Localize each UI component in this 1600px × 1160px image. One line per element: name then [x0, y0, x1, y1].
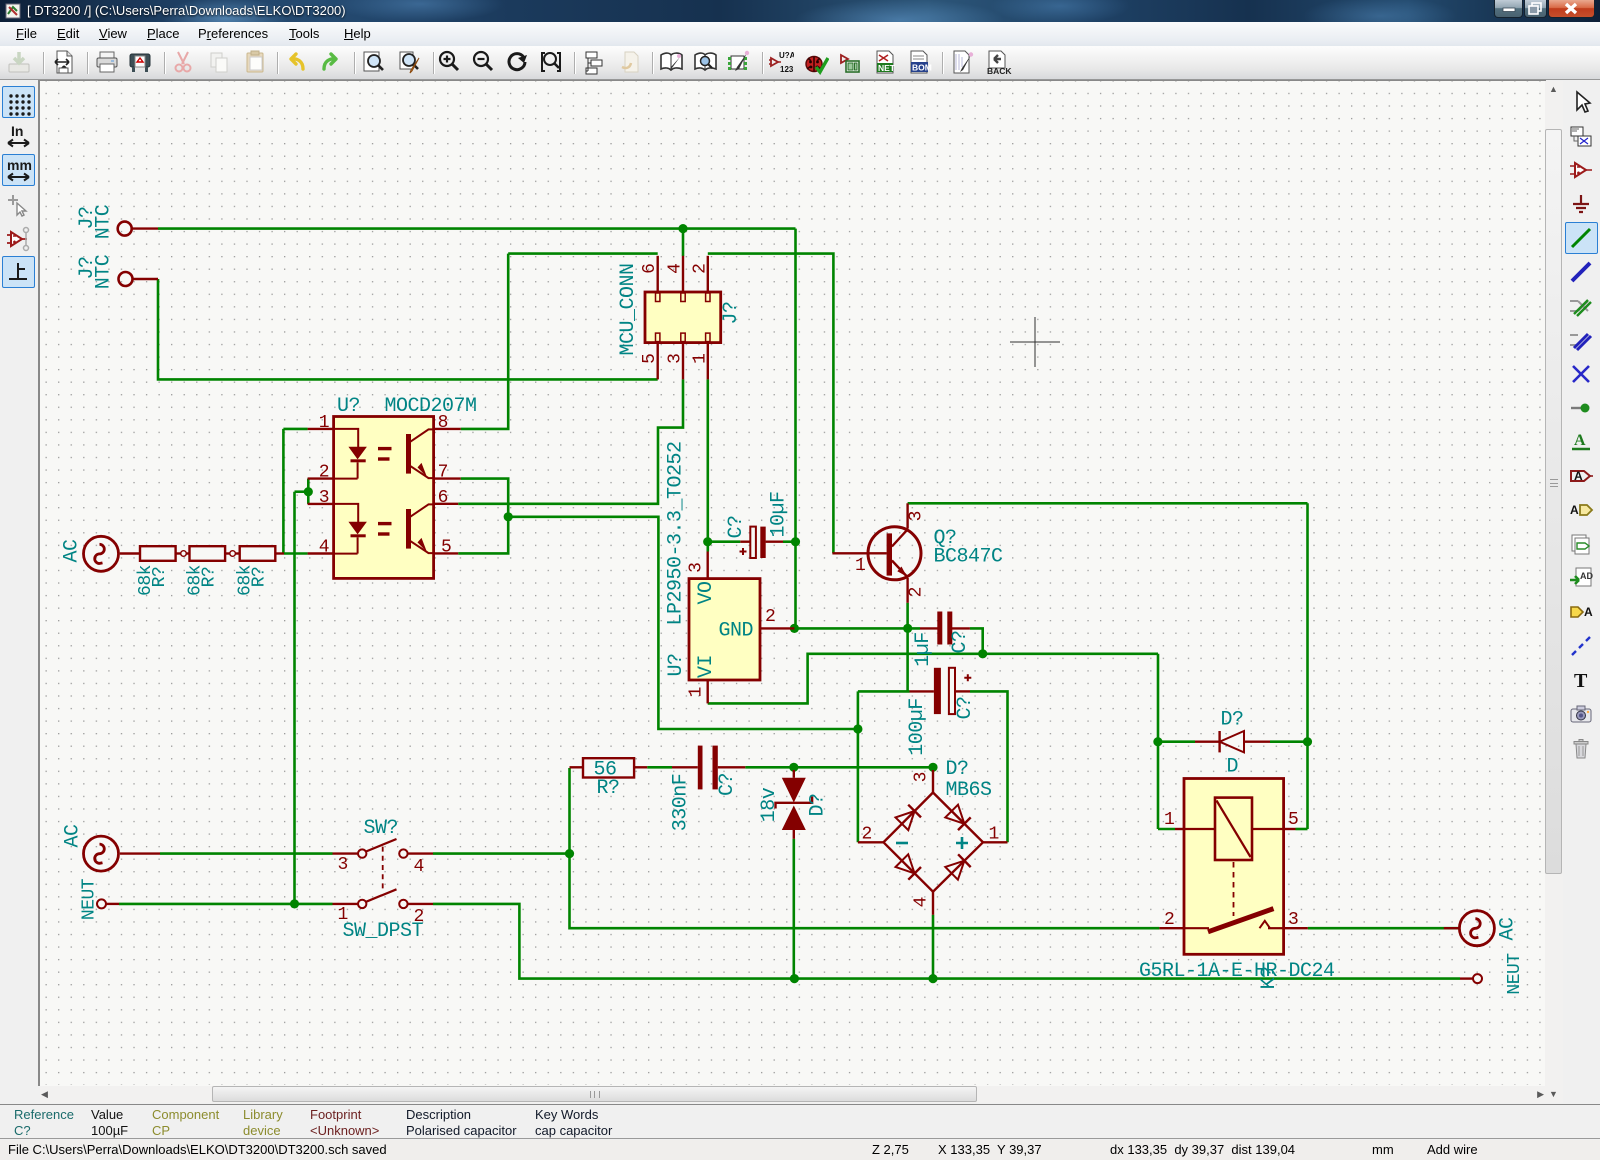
pin stub C10u left [740, 541, 750, 543]
svg-text:SW_DPST: SW_DPST [343, 920, 424, 943]
wire R56 to C330n [647, 766, 672, 769]
connector J? NTC 1 [118, 222, 132, 236]
svg-text:MCU_CONN: MCU_CONN [617, 263, 640, 355]
capacitor C? 330nF [698, 746, 718, 790]
relay K? G5RL body [1184, 779, 1284, 955]
pin stub MCU pin5 [657, 343, 659, 379]
svg-text:D?: D? [946, 758, 969, 781]
svg-text:SW?: SW? [364, 817, 399, 840]
pin stub LP pin2 [760, 627, 794, 629]
pin stub MCU pin2 [707, 256, 709, 292]
svg-text:NEUT: NEUT [80, 878, 100, 920]
wire NEUT to switch pin1 [119, 903, 333, 906]
relay switch contact [1184, 909, 1284, 932]
label SW_DPST [343, 920, 424, 943]
pin stub opto pin6 [434, 503, 459, 505]
wire MCU pin2 to Q1 base [708, 254, 834, 554]
connector NEUT left [97, 899, 106, 908]
switch dashed link [382, 847, 384, 891]
svg-text:T: T [1574, 670, 1588, 692]
info panel [0, 1104, 1600, 1139]
wire 100uF right to bridge pin1 [970, 691, 1008, 842]
svg-text:2: 2 [907, 587, 927, 598]
svg-text:3: 3 [687, 562, 707, 573]
pin stub R3 out [275, 552, 284, 554]
capacitor C? 100uF [934, 668, 971, 714]
node junction zener top [789, 763, 798, 772]
svg-text:NTC: NTC [93, 254, 116, 289]
svg-text:AD: AD [1580, 571, 1593, 581]
node open pin circle R2-R3 [230, 551, 236, 557]
svg-text:K?: K? [1258, 966, 1281, 989]
label J? NTC2 [76, 254, 116, 289]
power source AC right [1459, 911, 1494, 946]
label AC left [62, 824, 85, 848]
menu bar [0, 22, 1600, 46]
label GND [719, 620, 754, 643]
svg-text:4: 4 [665, 263, 685, 274]
power source AC top-left [84, 536, 119, 571]
wire C10u right [783, 540, 796, 543]
pin stub C10u right [766, 541, 783, 543]
node junction NEUT branch [290, 899, 299, 908]
pin stub Q1 emitter [906, 578, 908, 603]
wire diode right link [1270, 740, 1308, 743]
transistor photo channel 2 of U? [406, 504, 434, 553]
pin stub switch pin1 [333, 903, 359, 905]
pin numbers MCU bottom [640, 353, 711, 364]
svg-text:VI: VI [695, 655, 718, 678]
node junction C10u left [703, 537, 712, 546]
diode LED channel 1 of U? [334, 429, 392, 479]
wire net to relay pin1 [1158, 654, 1175, 829]
svg-text:7: 7 [438, 463, 449, 483]
svg-text:BC847C: BC847C [934, 546, 1004, 569]
label NEUT right [1505, 953, 1525, 995]
pin stub switch pin2 [407, 903, 433, 905]
cursor crosshair [1010, 317, 1060, 367]
svg-text:AC: AC [62, 824, 85, 848]
svg-text:1: 1 [989, 825, 1000, 845]
svg-text:10µF: 10µF [768, 491, 791, 537]
pin stub diode cathode [1195, 741, 1220, 743]
svg-text:C?: C? [954, 696, 977, 719]
left toolbar [0, 81, 38, 1104]
connector J? MCU_CONN body [645, 292, 721, 343]
pin numbers MCU top [640, 263, 711, 274]
resistor R? 68k #3 [240, 546, 276, 561]
label NEUT left [80, 878, 100, 920]
wire C330n to bridge pin3 [745, 766, 933, 769]
node junction at 100uF branch [853, 724, 862, 733]
svg-text:2: 2 [862, 825, 873, 845]
label D? D [1221, 709, 1244, 779]
svg-text:5: 5 [441, 537, 452, 557]
node junction zener-NEUT [790, 974, 799, 983]
pin stub zener bottom [793, 830, 795, 839]
svg-text:U?: U? [337, 395, 360, 418]
pin stub C100u right [955, 690, 970, 692]
pin numbers U? right [438, 413, 452, 557]
pin stub C330n right [718, 766, 746, 768]
wire opto pin1 to pin4 row [283, 429, 307, 554]
label VI [695, 655, 718, 678]
label VO [695, 581, 718, 604]
resistor R? 68k #1 [140, 546, 176, 561]
svg-text:1: 1 [319, 413, 330, 433]
pin numbers LP [687, 562, 776, 697]
svg-text:2: 2 [414, 907, 425, 927]
label G5RL-1A-E-HR-DC24 [1139, 960, 1335, 983]
pin stub bridge pin4 [932, 892, 934, 915]
wire opto pin3 to NEUT [293, 492, 296, 904]
svg-text:R?: R? [150, 567, 170, 588]
pin stub R56 left [570, 766, 584, 768]
wire C10u left [708, 540, 741, 543]
pin stub opto pin7 [434, 477, 461, 479]
window title bar [0, 0, 1600, 22]
svg-text:3: 3 [907, 511, 927, 522]
node junction opto pins 5-7 [504, 512, 513, 521]
svg-text:J?: J? [720, 301, 743, 324]
pin stub MCU pin3 [682, 343, 684, 379]
svg-text:C?: C? [949, 630, 972, 653]
pin stub opto pin8 [434, 428, 461, 430]
pin stub relay pin2 [1159, 927, 1184, 929]
wire LP VI net [708, 654, 1158, 704]
label J? NTC1 [76, 204, 116, 239]
pin stub C100u left [910, 690, 934, 692]
svg-text:1: 1 [687, 687, 707, 698]
vertical scrollbar [1545, 81, 1563, 1103]
wire LP GND row [794, 627, 920, 630]
svg-text:2: 2 [690, 263, 710, 274]
relay coil pins inside [1184, 828, 1284, 830]
pin stub NTC2 [133, 278, 158, 280]
svg-text:MB6S: MB6S [946, 779, 993, 802]
wire bridge pin4 down [932, 915, 935, 979]
svg-text:6: 6 [438, 488, 449, 508]
pin stub R2-R3 [225, 552, 240, 554]
svg-text:6: 6 [640, 263, 660, 274]
svg-text:G5RL-1A-E-HR-DC24: G5RL-1A-E-HR-DC24 [1139, 960, 1335, 983]
node junction switch-R56 [565, 849, 574, 858]
svg-text:R?: R? [597, 777, 620, 800]
svg-text:U?: U? [665, 653, 688, 676]
pin stub LP pin3 [707, 552, 709, 579]
node junction LP GND [790, 624, 799, 633]
top toolbar [0, 46, 1600, 80]
label C? 100uF [906, 696, 977, 755]
pin stub C1u right [952, 627, 970, 629]
wire switch pin4 out [433, 852, 570, 855]
svg-text:3: 3 [665, 353, 685, 364]
pin stub Q1 collector [906, 503, 908, 528]
wire opto pin5 up [458, 517, 508, 554]
svg-text:1: 1 [1164, 810, 1175, 830]
wire 100uF left [858, 690, 910, 693]
label AC right [1497, 917, 1520, 941]
wire opto pin8 up [461, 254, 509, 429]
svg-text:D: D [1227, 756, 1239, 779]
capacitor C? 1uF [937, 612, 952, 645]
svg-text:NEUT: NEUT [1505, 953, 1525, 995]
svg-text:GND: GND [719, 620, 754, 643]
label 68k R? #2 [186, 565, 220, 596]
wire MCU pin1 to LP VO [706, 379, 709, 551]
pin stub NEUT right [1460, 977, 1473, 979]
pin stub NEUT left [107, 903, 120, 905]
svg-text:3: 3 [338, 855, 349, 875]
svg-text:D?: D? [1221, 709, 1244, 732]
svg-text:R?: R? [200, 567, 220, 588]
node junction diode right [1303, 737, 1312, 746]
diode D? 18v zener [776, 778, 813, 830]
label C? 10uF [725, 491, 791, 538]
wire diode left link [1158, 740, 1195, 743]
svg-text:AC: AC [1497, 917, 1520, 941]
pin stub C330n left [672, 766, 698, 768]
svg-text:mm: mm [7, 157, 32, 173]
label 18v D? [758, 787, 830, 822]
diode bridge D? MB6S [884, 793, 984, 892]
pin stub diode anode [1244, 741, 1270, 743]
svg-text:330nF: 330nF [670, 774, 693, 832]
wire opto pin7 down [461, 479, 509, 517]
pin stub C1u left [920, 627, 938, 629]
svg-text:5: 5 [1288, 810, 1299, 830]
pin stub opto pin1 [308, 428, 334, 430]
svg-text:D?: D? [807, 793, 830, 816]
pin stub bridge pin3 [932, 770, 934, 793]
svg-text:A: A [1574, 432, 1586, 449]
label U? MOCD207M [337, 395, 477, 418]
pin stub switch pin3 [333, 852, 359, 854]
pin stub AC left [120, 852, 160, 854]
wire C1u right [970, 628, 983, 653]
svg-text:3: 3 [319, 488, 330, 508]
svg-text:2: 2 [1164, 910, 1175, 930]
pin stub relay pin3 [1284, 927, 1308, 929]
svg-text:8: 8 [438, 413, 449, 433]
node junction bridge pin3 [928, 763, 937, 772]
pin stub MCU pin6 [657, 256, 659, 292]
pin stub LP pin1 [707, 680, 709, 703]
pin marks J? MCU_CONN [656, 293, 711, 342]
svg-text:2: 2 [319, 463, 330, 483]
node junction C10u right [791, 537, 800, 546]
pin stub MCU pin4 [682, 256, 684, 292]
svg-text:NTC: NTC [93, 204, 116, 239]
switch SW? pole B [358, 889, 408, 908]
pin numbers U? left [319, 413, 330, 558]
svg-text:5: 5 [640, 353, 660, 364]
node junction opto pin2-3 [304, 487, 313, 496]
wire Q1 emitter down [906, 603, 909, 692]
label SW? [364, 817, 399, 840]
pin stub NTC1 [132, 227, 158, 229]
pin stub opto pin2 [308, 477, 334, 479]
node junction diode left [1153, 737, 1162, 746]
node open pin circle R1-R2 [181, 551, 187, 557]
wire R56 branch vertical [570, 768, 1160, 928]
wire MCU pin3 to opto pin6 [458, 379, 683, 503]
label K? [1258, 966, 1281, 989]
pin stub switch pin4 [407, 852, 433, 854]
svg-text:3: 3 [912, 772, 932, 783]
pin numbers switch [338, 855, 425, 927]
capacitor C? 10uF [740, 527, 766, 558]
svg-text:100µF: 100µF [906, 698, 929, 756]
pin stub bridge pin1 [983, 841, 1008, 843]
label D? MB6S [946, 758, 993, 802]
label C? 1uF [912, 630, 972, 666]
pin stub opto pin3 [308, 503, 334, 505]
label bridge polarity [896, 837, 968, 849]
wire zener to NEUT [792, 839, 795, 979]
svg-text:3: 3 [1288, 910, 1299, 930]
pin stub AC right [1444, 927, 1459, 929]
label 56 R? [594, 759, 620, 801]
wire NTC2 to MCU pin5 [158, 279, 658, 379]
wire opto pin2-pin3 tie [295, 479, 309, 504]
horizontal scrollbar [40, 1086, 1545, 1103]
op-amp U? MOCD207M body [334, 417, 434, 579]
svg-text:1µF: 1µF [912, 632, 935, 667]
wire bridge pin2 up [857, 691, 860, 842]
pin stub relay pin1 [1175, 828, 1184, 830]
relay dashed link [1233, 862, 1235, 916]
label 330nF C? [670, 773, 740, 831]
wire NTC1 top net [158, 229, 796, 629]
label MCU_CONN [617, 263, 640, 355]
right toolbar [1563, 81, 1600, 1104]
transistor photo channel 1 of U? [406, 429, 434, 478]
wire switch pin2 to NEUT right [433, 904, 1460, 979]
diode LED channel 2 of U? [334, 504, 392, 554]
label LP2950-3.3_TO252 [665, 441, 688, 625]
label 68k R? #3 [236, 565, 270, 596]
svg-text:1: 1 [338, 905, 349, 925]
pin stub Q1 base [832, 552, 886, 554]
op-amp U? LP2950 body [689, 579, 760, 680]
node junction top wire to MCU pin4 [678, 224, 687, 256]
svg-text:LP2950-3.3_TO252: LP2950-3.3_TO252 [665, 441, 688, 625]
pin stub MCU pin1 [707, 343, 709, 379]
label AC top-left [61, 539, 84, 563]
svg-text:AC: AC [61, 539, 84, 563]
switch SW? pole A [358, 839, 408, 858]
svg-text:4: 4 [414, 857, 425, 877]
pin stub opto pin5 [434, 552, 459, 554]
wire opto emitters to node [508, 517, 858, 729]
power source AC left [84, 836, 119, 871]
status bar [0, 1140, 1600, 1160]
pin stub R56 right [634, 766, 647, 768]
pin stub bridge pin2 [858, 841, 884, 843]
svg-text:C?: C? [725, 515, 748, 538]
pin stub opto pin4 [308, 552, 334, 554]
svg-text:A: A [1570, 503, 1579, 517]
wire R3 out to opto pin4 [284, 552, 308, 555]
svg-text:1: 1 [855, 556, 866, 576]
connector NEUT right [1473, 974, 1482, 983]
pin stub R1-R2 [176, 552, 190, 554]
diode D? at relay [1220, 731, 1244, 752]
label J? MCU [720, 301, 743, 324]
svg-text:MOCD207M: MOCD207M [385, 395, 477, 418]
wire relay pin3 to AC right [1308, 927, 1459, 930]
svg-text:4: 4 [912, 897, 932, 908]
node junction C1u net [978, 649, 987, 658]
pin stub zener top [793, 770, 795, 778]
svg-text:1: 1 [690, 353, 710, 364]
label U? LP [665, 653, 688, 676]
svg-text:18v: 18v [758, 787, 781, 822]
svg-text:2: 2 [765, 607, 776, 627]
svg-text:A: A [1574, 469, 1583, 483]
relay coil [1215, 798, 1252, 860]
label 68k R? #1 [136, 565, 170, 596]
svg-text:In: In [11, 123, 23, 139]
resistor R? 68k #2 [190, 546, 226, 561]
pin numbers Q1 [855, 511, 927, 598]
pin numbers relay [1164, 810, 1299, 930]
transistor Q1 BC847C [868, 527, 921, 580]
svg-text:VO: VO [695, 581, 718, 604]
pin numbers bridge [862, 772, 1000, 908]
svg-text:A: A [1584, 605, 1593, 619]
wire Q1 collector to relay pin5 [908, 503, 1308, 829]
node junction emitter-GND [903, 624, 912, 633]
pin stub relay pin5 [1284, 828, 1296, 830]
node junction bridge4-NEUT [928, 974, 937, 983]
svg-text:R?: R? [250, 567, 270, 588]
svg-text:4: 4 [319, 538, 330, 558]
svg-text:C?: C? [716, 773, 739, 796]
resistor R? 56 [583, 758, 634, 777]
label Q? BC847C [934, 527, 1004, 569]
connector J? NTC 2 [119, 272, 133, 286]
wire AC live to switch pin3 [160, 852, 333, 855]
wire segment MCU pin6 [508, 252, 658, 255]
pin stub AC-R1 [120, 552, 140, 554]
